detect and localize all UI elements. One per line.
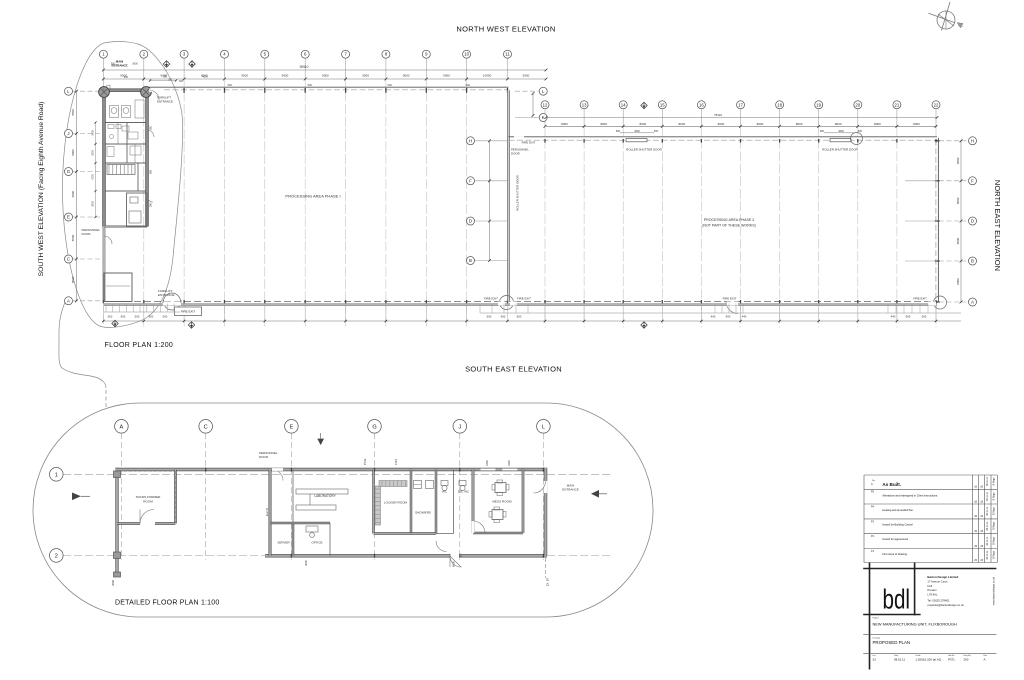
svg-text:78110: 78110 <box>714 113 722 117</box>
roller shutter door 2 phase 2 <box>831 139 851 141</box>
roller shutter door 1 phase 2 <box>627 139 647 141</box>
svg-text:04.11.11: 04.11.11 <box>986 476 989 486</box>
section marker top 1 <box>163 61 169 67</box>
main entrance door right <box>544 481 548 493</box>
svg-text:LOCKER ROOM: LOCKER ROOM <box>384 501 408 505</box>
svg-text:B: B <box>469 258 472 263</box>
office block outer walls <box>104 89 147 91</box>
svg-text:15: 15 <box>660 102 665 107</box>
svg-text:First issue of drawing.: First issue of drawing. <box>882 552 908 556</box>
detail blob outline around office area <box>62 42 182 328</box>
svg-text:B: B <box>971 259 974 264</box>
svg-text:W01: W01 <box>228 84 234 87</box>
fire exit door bottom left <box>164 293 181 310</box>
svg-text:NORTH EAST ELEVATION: NORTH EAST ELEVATION <box>993 180 1002 271</box>
mess room table 2 <box>492 510 503 520</box>
phase 1 top wall <box>147 86 509 88</box>
svg-text:(NOT PART OF THESE WORKS): (NOT PART OF THESE WORKS) <box>702 224 756 228</box>
detail row bubble 2 <box>50 549 64 563</box>
svg-text:3600: 3600 <box>132 63 138 66</box>
svg-text:G: G <box>67 169 71 174</box>
office lower room partitions <box>127 193 148 227</box>
svg-text:8000: 8000 <box>71 149 75 156</box>
svg-text:enquiries@bartondesign.co.uk: enquiries@bartondesign.co.uk <box>927 603 964 607</box>
mess room door arc <box>473 521 485 533</box>
svg-text:12: 12 <box>543 102 548 107</box>
svg-text:Heating and amended flue.: Heating and amended flue. <box>882 508 913 512</box>
svg-text:F: F <box>971 178 974 183</box>
svg-text:Rev: Rev <box>872 480 875 482</box>
svg-text:8000: 8000 <box>956 278 960 285</box>
svg-text:B.Regs: B.Regs <box>992 521 995 530</box>
svg-text:04.11.11: 04.11.11 <box>986 491 989 501</box>
stadium outline of detail plan <box>33 403 653 617</box>
svg-text:19: 19 <box>816 102 821 107</box>
column markers on detail left wall <box>114 471 121 478</box>
row bubbles left L J G E C A <box>65 87 73 95</box>
svg-text:D: D <box>971 219 974 224</box>
grid bubble 4 <box>221 50 229 58</box>
small room bottom-left of phase 1 <box>104 273 132 302</box>
svg-text:8000: 8000 <box>874 122 881 126</box>
bottom left dense dimension stubs <box>105 304 107 313</box>
svg-text:3M2: 3M2 <box>151 169 153 174</box>
svg-text:2: 2 <box>55 553 58 559</box>
row bubbles right H F D B A <box>969 137 977 145</box>
svg-text:90510: 90510 <box>300 65 309 69</box>
svg-text:W01: W01 <box>466 84 472 87</box>
svg-text:900: 900 <box>121 315 126 319</box>
section marker bottom 1 <box>112 320 118 326</box>
svg-text:9000: 9000 <box>322 74 329 78</box>
svg-text:17: 17 <box>738 102 743 107</box>
svg-text:900: 900 <box>906 315 911 319</box>
top dimension line phase 2 <box>546 125 937 127</box>
svg-text:EL2.13: EL2.13 <box>265 507 269 516</box>
svg-text:8000: 8000 <box>956 237 960 244</box>
office partition walls <box>106 122 146 124</box>
detail left wall <box>116 468 118 577</box>
svg-text:600: 600 <box>616 130 621 133</box>
svg-text:8000: 8000 <box>600 122 607 126</box>
svg-text:Holt: Holt <box>927 584 932 588</box>
svg-text:C: C <box>204 424 208 430</box>
svg-text:8000: 8000 <box>561 122 568 126</box>
svg-text:17 Avenue Court: 17 Avenue Court <box>927 580 947 584</box>
phase 2 top wall <box>509 136 938 138</box>
phase 2 right wall <box>937 138 939 302</box>
svg-text:5000: 5000 <box>523 74 530 78</box>
svg-text:PROPOSED PLAN: PROPOSED PLAN <box>873 640 911 645</box>
detail bottom wall <box>265 555 547 557</box>
detail top wall right segment <box>270 468 547 470</box>
svg-text:21: 21 <box>895 102 900 107</box>
svg-text:3600: 3600 <box>838 130 844 133</box>
leader squiggle to detail plan <box>59 300 106 388</box>
grid dashed lines phase 2 <box>544 126 546 327</box>
dividing wall at grid 11 <box>508 90 510 301</box>
svg-text:ENTRANCE: ENTRANCE <box>111 63 127 67</box>
drawing title separator <box>863 633 996 635</box>
grid bubble 2 <box>140 50 148 58</box>
svg-text:500: 500 <box>108 315 113 319</box>
office right wall <box>329 523 331 556</box>
svg-text:W01: W01 <box>388 84 394 87</box>
grid bubble 13 <box>580 101 588 109</box>
svg-text:PROCESSING AREA PHASE 2: PROCESSING AREA PHASE 2 <box>704 218 755 222</box>
svg-text:10: 10 <box>464 52 469 57</box>
svg-text:8000: 8000 <box>757 122 764 126</box>
svg-text:PV34: PV34 <box>363 458 367 465</box>
overall dimension line phase 1 <box>103 69 546 71</box>
svg-text:4000: 4000 <box>304 560 308 566</box>
svg-text:ROLLER SHUTTER DOOR: ROLLER SHUTTER DOOR <box>626 148 662 152</box>
svg-text:900: 900 <box>124 76 129 79</box>
svg-text:8000: 8000 <box>639 122 646 126</box>
bottom dimension line phase 2 inner <box>480 312 961 314</box>
showers partition <box>410 470 412 534</box>
wc fixture <box>441 481 448 486</box>
svg-text:G: G <box>372 424 376 430</box>
svg-text:900: 900 <box>726 315 731 319</box>
shower cubicles <box>414 481 422 489</box>
svg-text:FIRE EXIT: FIRE EXIT <box>913 297 927 301</box>
boxed fire exit label <box>175 307 202 316</box>
windows top wall <box>481 468 496 471</box>
bottom dimension line overall <box>103 320 961 322</box>
section arrow B right <box>591 490 599 498</box>
svg-text:A: A <box>120 424 124 430</box>
svg-text:9000: 9000 <box>403 74 410 78</box>
forklift entrance door top <box>149 88 162 91</box>
svg-text:11: 11 <box>505 52 510 57</box>
svg-text:3900: 3900 <box>92 201 95 207</box>
fire exit doors at dividing wall <box>500 296 514 310</box>
svg-text:SHOWERS: SHOWERS <box>415 511 431 515</box>
svg-text:FIRE EXIT: FIRE EXIT <box>723 297 737 301</box>
phase 1 left wall <box>103 90 105 301</box>
svg-text:22: 22 <box>934 102 939 107</box>
svg-text:DOOR: DOOR <box>82 232 92 236</box>
svg-text:A: A <box>67 298 70 303</box>
svg-text:L: L <box>542 424 545 430</box>
top dimension line phase 1 <box>103 78 546 80</box>
revision table frame <box>864 474 997 476</box>
svg-text:FIRE EXIT: FIRE EXIT <box>181 310 196 314</box>
svg-text:H: H <box>971 138 974 143</box>
detail top wall left segment <box>116 468 271 470</box>
bottom info row separator <box>863 652 996 654</box>
left vertical dimension line <box>75 91 77 301</box>
title block border lines <box>863 568 996 570</box>
svg-text:NEW MANUFACTURING UNIT, FLIXBO: NEW MANUFACTURING UNIT, FLIXBOROUGH <box>873 621 957 626</box>
svg-text:600: 600 <box>820 130 825 133</box>
svg-text:2400: 2400 <box>485 460 489 466</box>
svg-text:04.11.11: 04.11.11 <box>986 521 989 531</box>
grid bubble 21 <box>893 101 901 109</box>
grid bubble 10 <box>463 50 471 58</box>
ex bt dashed line below entrance <box>545 558 547 578</box>
overall dimension phase 2 <box>546 117 937 119</box>
svg-text:DOOR: DOOR <box>259 455 269 459</box>
grid bubble 9 <box>422 50 430 58</box>
section marker bottom 3 <box>641 322 647 328</box>
svg-text:8000: 8000 <box>678 122 685 126</box>
svg-text:SJ: SJ <box>873 657 877 661</box>
svg-text:10000: 10000 <box>483 74 492 78</box>
svg-text:04.11.11: 04.11.11 <box>986 550 989 560</box>
svg-text:500: 500 <box>163 315 168 319</box>
office desk <box>306 526 318 532</box>
mini vertical dimension L-K <box>532 94 534 116</box>
svg-text:www.bartondesign.co.uk: www.bartondesign.co.uk <box>992 576 996 605</box>
svg-text:B.Regs: B.Regs <box>992 492 995 501</box>
svg-text:9000: 9000 <box>443 74 450 78</box>
svg-text:1:200&1:100 (at A1): 1:200&1:100 (at A1) <box>916 657 942 661</box>
svg-text:900: 900 <box>149 315 154 319</box>
column circle grid1/L <box>99 87 110 98</box>
svg-text:8000: 8000 <box>835 122 842 126</box>
svg-text:H: H <box>469 138 472 143</box>
phase 2 interior row stubs right <box>905 180 937 182</box>
grid bubble 5 <box>261 50 269 58</box>
svg-text:E: E <box>67 215 70 220</box>
svg-text:EX. BT: EX. BT <box>546 577 550 586</box>
svg-text:L78 9AL: L78 9AL <box>927 592 938 596</box>
laboratory benches <box>296 489 348 494</box>
row bubble K right of grid 11 <box>539 114 547 122</box>
svg-text:A: A <box>871 482 873 486</box>
grid dashed lines phase 1 <box>143 79 145 328</box>
transformer room inner dashed outline <box>175 471 177 523</box>
fire exit right corner <box>934 296 947 309</box>
svg-text:Tel: 01625 278451: Tel: 01625 278451 <box>927 599 950 603</box>
locker room wall <box>373 470 375 534</box>
mess room table 1 <box>495 483 506 493</box>
lab partition vertical <box>292 523 294 556</box>
svg-text:6000: 6000 <box>452 561 456 567</box>
bottom dim second cluster near fire exit <box>479 304 481 314</box>
dis wc fixture <box>459 481 466 486</box>
svg-text:04.11.11: 04.11.11 <box>986 536 989 546</box>
svg-text:B.Regs: B.Regs <box>992 536 995 545</box>
svg-text:As Built.: As Built. <box>882 482 901 487</box>
grid bubble 22 <box>932 101 940 109</box>
grid bubble 18 <box>776 101 784 109</box>
svg-text:LABORATORY: LABORATORY <box>314 494 336 498</box>
svg-text:B.Regs: B.Regs <box>992 550 995 559</box>
svg-text:Issued for agreements: Issued for agreements <box>882 537 909 541</box>
svg-text:ROOM: ROOM <box>143 500 153 504</box>
grid bubble 11 <box>504 50 512 58</box>
grid bubble 15 <box>658 101 666 109</box>
svg-text:200: 200 <box>964 657 969 661</box>
svg-text:F: F <box>469 178 472 183</box>
svg-text:A: A <box>971 300 974 305</box>
grid bubble 19 <box>815 101 823 109</box>
svg-text:9000: 9000 <box>71 191 75 198</box>
door arcs office <box>147 130 154 137</box>
section arrow top detail <box>317 439 324 446</box>
grid bubble 14 <box>619 101 627 109</box>
section marker top 3 phase 2 <box>641 102 647 108</box>
svg-text:9000: 9000 <box>362 74 369 78</box>
grid bubble 7 <box>342 50 350 58</box>
svg-text:Barton Design Limited: Barton Design Limited <box>927 575 958 579</box>
svg-text:A: A <box>984 657 986 661</box>
svg-text:J: J <box>458 424 461 430</box>
wc partition <box>435 470 437 534</box>
svg-text:NORTH WEST ELEVATION: NORTH WEST ELEVATION <box>456 25 555 34</box>
svg-text:600: 600 <box>858 130 863 133</box>
lockers hatch strip <box>375 486 381 525</box>
svg-text:500: 500 <box>487 315 492 319</box>
entrance door arc at grid 1 <box>103 85 110 90</box>
svg-text:OFFICE: OFFICE <box>312 541 323 545</box>
svg-text:8000: 8000 <box>956 157 960 164</box>
corridor door arc <box>436 541 447 552</box>
svg-text:FIRE EXIT: FIRE EXIT <box>522 141 536 145</box>
svg-text:8000: 8000 <box>913 122 920 126</box>
svg-text:600: 600 <box>654 130 659 133</box>
svg-text:D: D <box>469 219 472 224</box>
detail grid bubbles A C E G J L <box>115 420 129 434</box>
svg-text:500: 500 <box>517 315 522 319</box>
svg-text:500: 500 <box>135 315 140 319</box>
grid bubble 16 <box>697 101 705 109</box>
svg-text:2900: 2900 <box>92 150 95 156</box>
svg-text:TRANS FORMER: TRANS FORMER <box>136 495 162 499</box>
svg-text:8500: 8500 <box>71 234 75 241</box>
grid bubble 17 <box>737 101 745 109</box>
section marker bottom 2 <box>188 322 194 328</box>
svg-text:20: 20 <box>855 102 860 107</box>
svg-text:2400: 2400 <box>507 460 511 466</box>
svg-text:13: 13 <box>582 102 587 107</box>
detail row bubble 1 <box>50 468 64 482</box>
svg-text:Project: Project <box>873 617 880 620</box>
svg-text:3M1: 3M1 <box>151 125 153 130</box>
svg-text:8000: 8000 <box>956 197 960 204</box>
column circle grid2/L <box>141 87 152 98</box>
grid bubble 12 <box>541 101 549 109</box>
office staircase <box>107 165 135 175</box>
svg-text:Preston: Preston <box>927 588 937 592</box>
svg-text:8000: 8000 <box>718 122 725 126</box>
north point symbol <box>937 11 955 29</box>
section arrow B left <box>72 493 81 501</box>
svg-text:600: 600 <box>179 80 184 83</box>
svg-text:FIRE EXIT: FIRE EXIT <box>484 297 498 301</box>
svg-text:B.Regs: B.Regs <box>992 506 995 515</box>
svg-text:ROLLER SHUTTER DOOR: ROLLER SHUTTER DOOR <box>822 148 858 152</box>
office side dimension line <box>95 123 97 218</box>
svg-text:900: 900 <box>501 315 506 319</box>
svg-text:3M3: 3M3 <box>151 202 153 207</box>
mess room left wall <box>472 470 474 534</box>
svg-text:FLOOR PLAN 1:200: FLOOR PLAN 1:200 <box>105 342 174 349</box>
svg-text:1: 1 <box>55 472 58 478</box>
svg-text:08.01.11: 08.01.11 <box>894 657 905 661</box>
svg-text:MESS ROOM: MESS ROOM <box>492 500 512 504</box>
corridor wall horizontal <box>374 533 437 535</box>
svg-text:300: 300 <box>168 79 173 82</box>
server office partition horizontal <box>270 522 330 524</box>
svg-text:K: K <box>542 115 545 120</box>
svg-text:ENTRANCE: ENTRANCE <box>562 488 579 492</box>
svg-text:3600: 3600 <box>634 130 640 133</box>
grid bubble 20 <box>854 101 862 109</box>
svg-text:16: 16 <box>699 102 704 107</box>
svg-text:8500: 8500 <box>71 109 75 116</box>
svg-text:ENTRANCE: ENTRANCE <box>157 99 173 103</box>
svg-text:PROCESSING AREA PHASE I: PROCESSING AREA PHASE I <box>285 194 340 199</box>
detail right wall <box>544 468 546 556</box>
svg-text:9000: 9000 <box>241 74 248 78</box>
grid bubble 3 <box>180 50 188 58</box>
svg-text:PL61: PL61 <box>394 458 398 465</box>
main detail block left wall <box>269 470 271 556</box>
svg-text:J: J <box>67 131 69 136</box>
svg-text:500: 500 <box>922 315 927 319</box>
phase2 bottom dim stubs near fire exits <box>714 304 716 314</box>
section marker top 2 <box>189 61 195 67</box>
svg-text:DETAILED FLOOR PLAN 1:100: DETAILED FLOOR PLAN 1:100 <box>115 600 219 607</box>
grid-wall intersection ticks lower plan <box>205 468 207 472</box>
svg-text:Issued for Building Control: Issued for Building Control <box>882 523 913 527</box>
bottom wall full length <box>104 304 937 306</box>
svg-text:3000: 3000 <box>111 580 115 586</box>
inner vertical dimension line at grid 11 <box>489 141 491 261</box>
svg-text:3400: 3400 <box>92 130 95 136</box>
svg-text:SERVER: SERVER <box>277 541 290 545</box>
svg-text:440: 440 <box>711 315 716 319</box>
svg-text:SOUTH WEST ELEVATION (Facing E: SOUTH WEST ELEVATION (Facing Eighth Aven… <box>38 102 45 277</box>
svg-text:14: 14 <box>621 102 626 107</box>
svg-text:FIRE EXIT: FIRE EXIT <box>517 297 531 301</box>
svg-text:P371: P371 <box>948 657 955 661</box>
transformer room walls <box>175 470 177 524</box>
svg-text:DOOR: DOOR <box>511 152 520 156</box>
grid bubble 1 <box>99 50 107 58</box>
main door bottom <box>450 554 461 558</box>
svg-text:4000: 4000 <box>202 76 208 79</box>
svg-text:B.Regs: B.Regs <box>992 477 995 486</box>
grid bubble 6 <box>301 50 309 58</box>
svg-text:bdl: bdl <box>883 584 911 615</box>
svg-text:18: 18 <box>777 102 782 107</box>
svg-text:8500: 8500 <box>71 276 75 283</box>
svg-text:4200: 4200 <box>92 174 95 180</box>
svg-text:E: E <box>290 424 294 430</box>
row bubble L right of grid 11 <box>539 87 547 95</box>
svg-text:W01: W01 <box>308 84 314 87</box>
right vertical dimension line <box>960 141 962 302</box>
svg-text:SOUTH EAST ELEVATION: SOUTH EAST ELEVATION <box>465 365 562 374</box>
svg-text:9000: 9000 <box>282 74 289 78</box>
svg-text:ROLLER SHUTTER DOOR: ROLLER SHUTTER DOOR <box>516 175 520 211</box>
row bubbles inner H F D B <box>467 137 475 145</box>
svg-text:Alterations and redesigned in: Alterations and redesigned in Client ins… <box>882 493 938 497</box>
svg-text:440: 440 <box>891 315 896 319</box>
grid bubble 8 <box>382 50 390 58</box>
mess room right wall <box>522 470 524 534</box>
svg-text:440: 440 <box>742 315 747 319</box>
svg-text:8000: 8000 <box>796 122 803 126</box>
office fixtures top room <box>110 106 119 118</box>
svg-text:C: C <box>67 257 70 262</box>
svg-text:500: 500 <box>163 76 168 79</box>
